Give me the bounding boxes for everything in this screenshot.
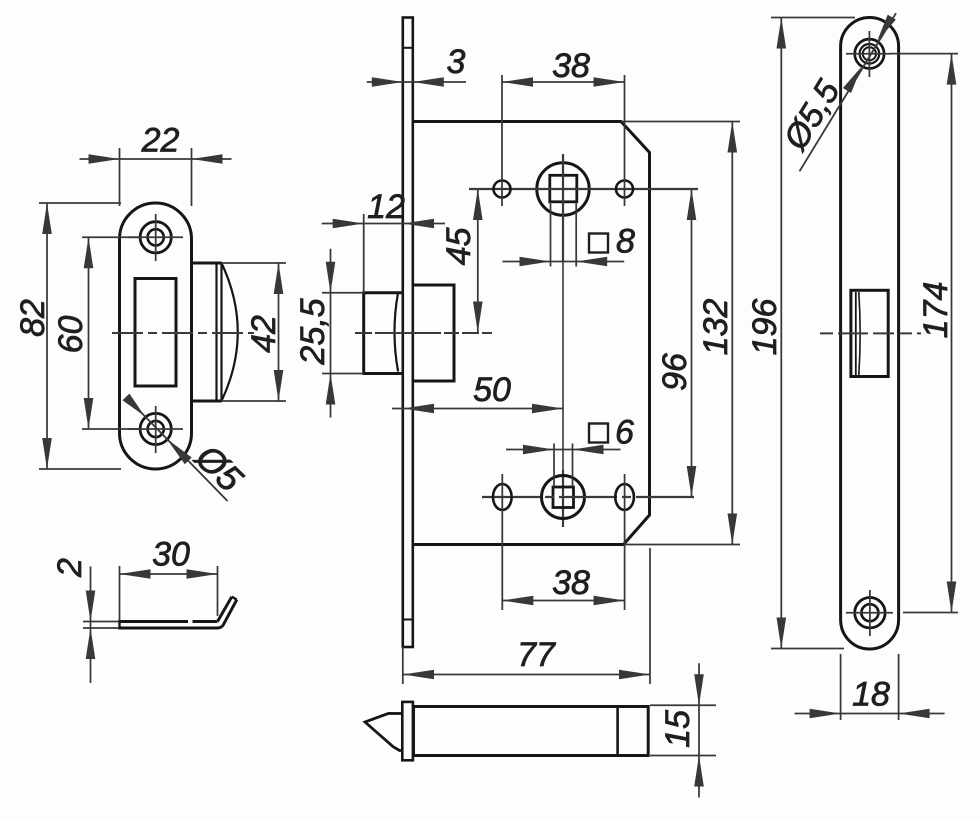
dimension 42 extension lines: [222, 262, 287, 264]
strike plate centerline: [112, 332, 254, 334]
dimension 77 extension lines: [402, 647, 404, 684]
screw post left (top): [494, 181, 511, 198]
oval post right (bottom): [615, 484, 634, 510]
latch bolt housing: [413, 285, 454, 381]
latch face edge in window: [855, 292, 857, 375]
latch bolt bevel tip: [365, 713, 402, 750]
diameter 5.5 leader: [800, 13, 897, 171]
dimension 12 extension line: [363, 214, 365, 293]
svg-text:15: 15: [659, 710, 697, 748]
svg-text:38: 38: [552, 564, 590, 602]
latch bolt head: [364, 293, 403, 374]
dimension 22 extension lines: [119, 148, 121, 206]
hub vertical centerline: [562, 154, 564, 262]
svg-text:38: 38: [552, 47, 590, 85]
faceplate bar end ticks: [403, 47, 413, 49]
dimension 6: [506, 449, 621, 451]
square symbol 8: [589, 234, 608, 253]
strike plate tongue tab: [192, 262, 222, 265]
svg-text:132: 132: [697, 299, 735, 356]
dimension 30 extension lines: [119, 566, 121, 620]
svg-text:25,5: 25,5: [294, 298, 332, 365]
screw hole top (strike): [140, 222, 171, 253]
svg-text:22: 22: [141, 122, 180, 160]
dimension 45: [477, 189, 479, 333]
faceplate screw hole top: [855, 39, 884, 68]
svg-text:82: 82: [14, 299, 52, 337]
dimension 60 extension lines: [82, 236, 142, 238]
faceplate (front view): [841, 18, 899, 650]
svg-text:196: 196: [746, 299, 784, 356]
screw hole bottom (strike): [140, 413, 171, 444]
lock case body outline: [413, 122, 650, 545]
bracket extension thin lines: [83, 621, 120, 623]
strike plate latch cutout: [135, 279, 176, 387]
svg-text:77: 77: [517, 636, 556, 674]
dimension 174: [951, 54, 953, 613]
dimension 25.5 extension lines: [322, 292, 364, 294]
dimension 82 extension lines: [39, 202, 121, 204]
latch bolt body (bottom view): [414, 707, 649, 756]
dimension 8: [503, 261, 625, 263]
svg-text:3: 3: [447, 43, 466, 81]
dimension 25.5: [330, 249, 332, 418]
dimension 50: [392, 408, 403, 410]
bracket bent tip: [218, 597, 232, 622]
extension lines through top posts: [501, 75, 503, 206]
strike plate body (front view): [120, 203, 192, 469]
square-8 extension lines: [550, 202, 552, 267]
dimension 3: [367, 81, 466, 83]
faceplate latch window: [851, 290, 888, 376]
svg-text:18: 18: [852, 676, 890, 714]
dimension 18 extension lines: [840, 654, 842, 720]
dimension 42: [278, 263, 280, 401]
oval post left (bottom): [493, 484, 512, 510]
dimension 22: [80, 158, 232, 160]
dimension 60: [88, 237, 90, 429]
diameter 5 leader: [126, 397, 228, 501]
faceplate centerline: [820, 332, 921, 334]
dimension 12: [322, 223, 445, 225]
svg-text:8: 8: [616, 223, 635, 261]
hub horizontal centerline (top): [469, 188, 698, 190]
svg-text:30: 30: [152, 536, 190, 574]
dimension 132 extension lines: [621, 121, 740, 123]
screw post right (top): [616, 181, 633, 198]
dimension 82: [46, 203, 48, 469]
dimension 38 bottom: [502, 600, 624, 602]
dimension 15: [698, 663, 700, 797]
bracket plate side view: [120, 620, 189, 623]
svg-text:45: 45: [440, 228, 478, 266]
faceplate bar (side view): [403, 18, 413, 648]
dimension 30: [120, 573, 218, 575]
extension lines through bottom posts: [501, 474, 503, 610]
dimension 96: [691, 189, 693, 497]
square symbol 6: [589, 424, 608, 443]
dimension 196 extension lines: [771, 17, 855, 19]
dimension 2: [90, 567, 92, 684]
dimension 77: [403, 674, 650, 676]
dimension 196: [780, 18, 782, 649]
square-6 extension lines: [553, 444, 555, 488]
latch faceplate flange (bottom view): [402, 702, 413, 760]
dimension 38 top: [502, 81, 625, 83]
svg-text:12: 12: [367, 188, 405, 226]
svg-text:174: 174: [917, 282, 955, 339]
follower hub square hole (bottom): [542, 476, 585, 519]
svg-text:50: 50: [473, 371, 511, 409]
latch centerline: [355, 332, 492, 334]
latch bolt tail divider: [616, 707, 619, 756]
spindle hub square hole (top): [537, 163, 589, 215]
svg-text:2: 2: [51, 558, 89, 578]
dimension 174 extension lines: [890, 53, 958, 55]
svg-text:60: 60: [52, 316, 90, 354]
svg-text:6: 6: [615, 414, 634, 452]
svg-text:96: 96: [656, 353, 694, 391]
svg-text:42: 42: [245, 315, 283, 353]
dimension 18: [795, 713, 945, 715]
dimension 15 extension lines: [650, 704, 716, 706]
hub horizontal centerline (bottom): [482, 496, 698, 498]
dimension 132: [731, 122, 733, 545]
faceplate screw hole bottom: [855, 598, 885, 628]
